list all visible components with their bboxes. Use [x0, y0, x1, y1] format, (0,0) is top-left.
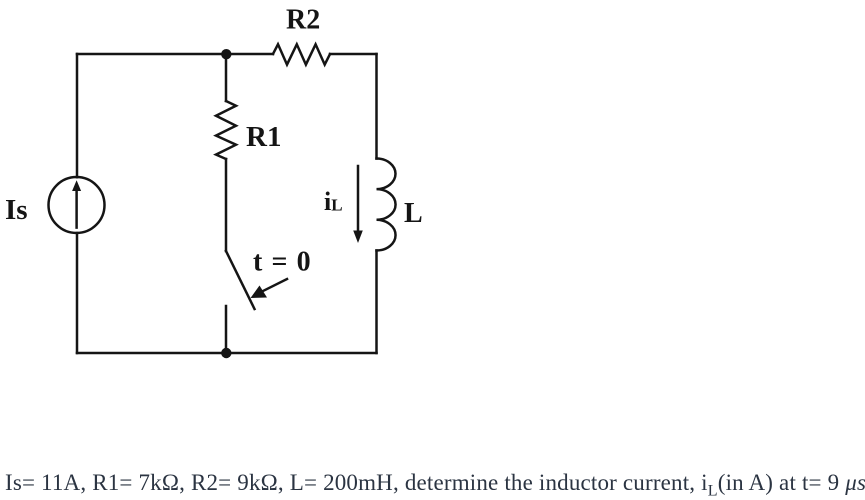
node junction top — [221, 49, 231, 59]
switch arrowhead — [251, 286, 268, 299]
switch closing arrow — [262, 279, 287, 292]
wire junction to R1 — [225, 54, 228, 101]
wire switch stub to bottom — [225, 306, 228, 353]
wire top-left to R2 — [77, 53, 273, 56]
caption text — [5, 470, 865, 496]
iL arrowhead — [353, 231, 363, 244]
svg-text:t = 0: t = 0 — [253, 246, 312, 277]
svg-text:iL: iL — [324, 187, 343, 216]
switch blade — [226, 251, 255, 309]
svg-text:R2: R2 — [286, 5, 320, 36]
resistor R1 — [216, 101, 236, 159]
iL current arrow — [357, 166, 360, 232]
wire right side upper — [375, 54, 378, 159]
inductor L coil — [377, 159, 396, 251]
svg-text:R1: R1 — [246, 121, 281, 153]
Is source arrow — [75, 190, 78, 228]
svg-text:Is: Is — [5, 194, 28, 226]
wire left side lower — [76, 233, 79, 353]
wire left side upper — [76, 54, 79, 177]
wire right side lower — [375, 251, 378, 354]
resistor R2 — [273, 44, 330, 64]
svg-text:L: L — [404, 198, 423, 229]
wire bottom — [77, 352, 377, 355]
Is arrowhead — [72, 180, 81, 191]
node junction bottom — [221, 348, 231, 358]
wire R2 to top-right corner — [330, 53, 377, 56]
current source Is circle — [49, 177, 105, 233]
wire R1 to switch — [225, 159, 228, 251]
